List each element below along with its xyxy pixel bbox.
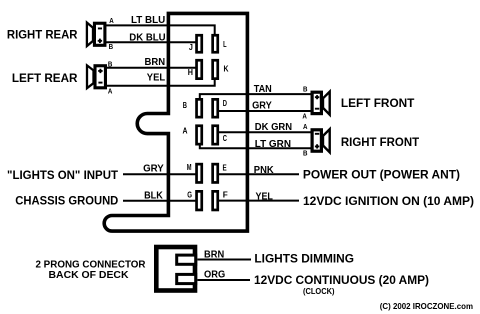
svg-text:F: F <box>223 191 228 200</box>
pin L <box>213 35 218 52</box>
pin A <box>197 126 202 144</box>
svg-text:(C) 2002 IROCZONE.com: (C) 2002 IROCZONE.com <box>380 301 473 311</box>
pin D <box>213 99 218 117</box>
svg-text:DK BLU: DK BLU <box>129 32 165 44</box>
svg-text:A: A <box>303 124 308 131</box>
left rear plus <box>98 69 102 73</box>
wire BRN 2-prong to lights dimming <box>198 259 252 261</box>
wire YEL left-rear A to pin K <box>107 79 215 86</box>
pin B <box>197 99 202 117</box>
speaker right rear box <box>94 23 104 45</box>
svg-text:BRN: BRN <box>204 248 224 260</box>
svg-text:TAN: TAN <box>254 83 272 95</box>
svg-text:B: B <box>109 44 114 51</box>
pin F <box>213 191 218 210</box>
svg-text:YEL: YEL <box>147 71 166 83</box>
wire ORG 2-prong to 12vdc continuous <box>198 279 251 281</box>
svg-text:PNK: PNK <box>254 164 274 176</box>
pin G <box>197 191 202 210</box>
2-prong pin 2 <box>177 274 196 283</box>
svg-text:POWER OUT (POWER ANT): POWER OUT (POWER ANT) <box>303 168 460 182</box>
svg-text:A: A <box>302 113 307 120</box>
svg-text:A: A <box>183 126 188 135</box>
svg-text:C: C <box>223 134 227 143</box>
speaker left rear horn <box>87 65 94 88</box>
svg-text:"LIGHTS ON" INPUT: "LIGHTS ON" INPUT <box>7 168 119 182</box>
svg-text:BACK OF DECK: BACK OF DECK <box>49 270 130 281</box>
2-prong pin 1 <box>177 255 196 264</box>
pin H <box>197 60 202 78</box>
svg-text:RIGHT REAR: RIGHT REAR <box>7 28 78 42</box>
speaker left front box <box>312 92 321 113</box>
svg-text:E: E <box>223 164 228 173</box>
wire DK GRN pin C to right-front A <box>218 131 311 133</box>
wire TAN pin B to left-front B <box>200 94 311 100</box>
svg-text:12VDC IGNITION ON (10 AMP): 12VDC IGNITION ON (10 AMP) <box>303 194 474 208</box>
svg-text:LEFT REAR: LEFT REAR <box>12 71 78 85</box>
svg-text:A: A <box>108 88 113 95</box>
svg-text:LIGHTS DIMMING: LIGHTS DIMMING <box>254 252 354 266</box>
svg-text:CHASSIS GROUND: CHASSIS GROUND <box>15 194 118 208</box>
svg-text:B: B <box>303 87 308 94</box>
right front minus <box>315 133 319 135</box>
svg-text:BLK: BLK <box>144 189 163 201</box>
right front plus <box>315 144 319 148</box>
wire GRY lights-on input to pin M <box>123 173 196 175</box>
svg-text:(CLOCK): (CLOCK) <box>303 287 335 296</box>
wire BRN left-rear B to pin H <box>107 67 197 69</box>
right rear plus <box>98 39 102 43</box>
connector J1 radio harness body <box>104 13 247 231</box>
wire GRY pin D to left-front A <box>218 110 311 112</box>
svg-text:L: L <box>223 40 227 49</box>
speaker right front box <box>312 130 321 151</box>
wire DK BLU right-rear B to pin J <box>106 41 196 43</box>
svg-text:B: B <box>183 101 187 110</box>
connector 2-prong body <box>156 247 195 291</box>
wire YEL pin F to 12VDC ignition <box>218 200 299 202</box>
svg-text:ORG: ORG <box>204 269 225 281</box>
pin K <box>213 60 218 78</box>
svg-text:B: B <box>108 61 113 68</box>
svg-text:DK GRN: DK GRN <box>255 121 292 133</box>
left front minus <box>315 108 319 110</box>
svg-text:RIGHT FRONT: RIGHT FRONT <box>341 135 420 149</box>
svg-text:J: J <box>189 43 193 52</box>
svg-text:LT GRN: LT GRN <box>255 138 291 150</box>
svg-text:H: H <box>188 68 193 77</box>
svg-text:K: K <box>224 64 229 73</box>
svg-text:A: A <box>109 18 114 25</box>
svg-text:B: B <box>303 150 308 157</box>
right rear minus <box>98 27 102 29</box>
pin M <box>197 164 202 182</box>
left front plus <box>315 95 319 99</box>
svg-text:BRN: BRN <box>145 56 166 68</box>
speaker left rear box <box>95 66 105 88</box>
svg-text:LT BLU: LT BLU <box>131 14 165 26</box>
left rear minus <box>98 82 102 84</box>
wire BLK chassis ground to pin G <box>123 200 196 202</box>
svg-text:YEL: YEL <box>256 190 274 202</box>
speaker left front horn <box>323 92 330 115</box>
speaker right rear horn <box>87 23 93 46</box>
svg-text:2 PRONG CONNECTOR: 2 PRONG CONNECTOR <box>36 260 147 271</box>
wire LT GRN pin A to right-front B <box>200 145 311 148</box>
svg-text:D: D <box>223 99 227 108</box>
speaker right front horn <box>323 129 330 152</box>
svg-text:LEFT FRONT: LEFT FRONT <box>341 96 415 110</box>
wire PNK pin E to power out <box>218 173 299 175</box>
pin J <box>197 35 202 52</box>
svg-text:12VDC CONTINUOUS (20 AMP): 12VDC CONTINUOUS (20 AMP) <box>254 273 429 287</box>
wire LT BLU right-rear A to pin L <box>106 25 215 34</box>
svg-text:GRY: GRY <box>252 100 272 112</box>
svg-text:G: G <box>187 190 192 199</box>
svg-text:GRY: GRY <box>143 162 164 174</box>
pin C <box>213 126 218 144</box>
svg-text:M: M <box>187 163 192 172</box>
pin E <box>213 164 218 182</box>
